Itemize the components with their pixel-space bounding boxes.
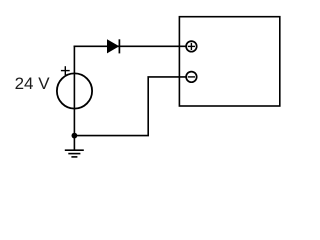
wire: from - terminal left and down to bottom net bbox=[74, 77, 185, 136]
load box (enclosure) bbox=[179, 17, 279, 106]
wire: top net from source through diode to + terminal bbox=[74, 45, 186, 47]
voltage source V1 (circle) bbox=[57, 73, 92, 108]
diode D1 (anode triangle) bbox=[107, 40, 118, 53]
junction node (solder dot) bbox=[72, 133, 78, 139]
ground symbol bbox=[65, 136, 84, 157]
wire: vertical from top wire through source down to ground junction bbox=[73, 46, 75, 136]
terminal + (positive input) bbox=[186, 41, 197, 52]
terminal - (negative input) bbox=[186, 72, 197, 83]
svg-text:24 V: 24 V bbox=[15, 74, 51, 93]
diode D1 cathode bar bbox=[118, 39, 120, 53]
polarity + mark of source bbox=[61, 66, 70, 75]
